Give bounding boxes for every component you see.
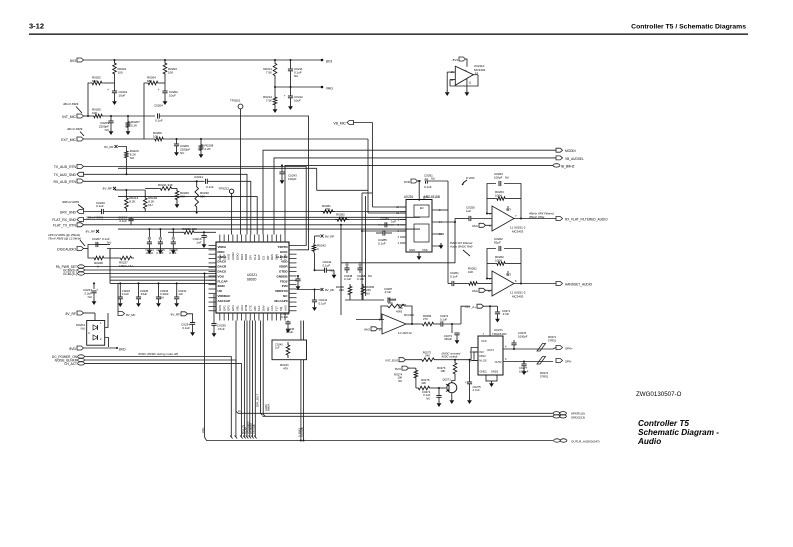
svg-text:NU: NU <box>368 274 372 278</box>
svg-text:GND1: GND1 <box>480 370 488 374</box>
svg-text:+: + <box>284 94 286 98</box>
svg-text:1uF: 1uF <box>391 220 396 224</box>
svg-text:+: + <box>158 88 160 92</box>
svg-text:MODIN: MODIN <box>565 149 576 153</box>
svg-text:8VDC muted): 8VDC muted) <box>442 355 458 359</box>
svg-text:0.1uF: 0.1uF <box>119 219 127 223</box>
svg-text:NU: NU <box>81 327 85 331</box>
svg-text:680: 680 <box>92 79 97 83</box>
svg-text:0.1uF: 0.1uF <box>281 315 288 319</box>
svg-text:VSS: VSS <box>422 248 428 252</box>
svg-text:8V_RF: 8V_RF <box>104 145 114 149</box>
svg-text:U0251: U0251 <box>404 195 414 199</box>
svg-text:8V_RF: 8V_RF <box>171 313 181 317</box>
svg-text:NU: NU <box>366 291 370 295</box>
svg-text:SPK+: SPK+ <box>565 347 573 351</box>
svg-text:57R01: 57R01 <box>548 338 557 342</box>
svg-text:8V3: 8V3 <box>506 208 511 212</box>
svg-text:BW0A: BW0A <box>267 403 271 411</box>
svg-text:6: 6 <box>489 212 491 216</box>
svg-text:GRD(S13): GRD(S13) <box>571 416 585 420</box>
svg-text:CLK16B: CLK16B <box>276 255 289 259</box>
svg-text:MC3403: MC3403 <box>512 294 524 298</box>
svg-text:C0284: C0284 <box>380 217 389 221</box>
svg-text:13: 13 <box>396 212 399 215</box>
svg-text:24K: 24K <box>339 288 344 292</box>
svg-text:1uF: 1uF <box>196 241 201 245</box>
svg-text:0.1uF: 0.1uF <box>378 242 386 246</box>
svg-text:8V_RF: 8V_RF <box>103 187 113 191</box>
svg-text:1uF: 1uF <box>178 292 183 296</box>
svg-text:2: 2 <box>398 230 400 233</box>
svg-text:0.1uF: 0.1uF <box>286 330 293 334</box>
svg-text:TX_AUD_SND: TX_AUD_SND <box>54 173 77 177</box>
svg-text:1: 1 <box>100 321 102 325</box>
svg-text:NU: NU <box>505 176 509 180</box>
svg-text:FLAT_RX_SND: FLAT_RX_SND <box>52 218 76 222</box>
svg-text:1000pF: 1000pF <box>518 334 528 338</box>
svg-text:46mV RMS: 46mV RMS <box>63 102 78 106</box>
svg-text:NINV: NINV <box>480 354 486 358</box>
svg-text:NU: NU <box>426 396 430 400</box>
svg-text:GND2: GND2 <box>491 370 499 374</box>
svg-text:0.1uF: 0.1uF <box>155 119 163 123</box>
svg-text:10K: 10K <box>440 369 445 373</box>
svg-text:10K: 10K <box>92 111 97 115</box>
svg-text:FLT_A+: FLT_A+ <box>465 305 476 309</box>
svg-text:12: 12 <box>396 206 399 209</box>
svg-text:ZWG0130507-O: ZWG0130507-O <box>636 391 682 398</box>
svg-text:2.2K: 2.2K <box>205 147 211 151</box>
svg-text:82pF: 82pF <box>494 241 501 245</box>
svg-text:MC3403: MC3403 <box>512 229 524 233</box>
svg-text:NU: NU <box>148 203 152 207</box>
svg-text:8V3: 8V3 <box>453 58 459 62</box>
svg-text:24K: 24K <box>425 354 430 358</box>
svg-text:VDD: VDD <box>281 260 288 264</box>
svg-text:SPK-: SPK- <box>565 360 572 364</box>
svg-text:100: 100 <box>118 71 123 75</box>
svg-text:Q0271: Q0271 <box>442 377 451 381</box>
svg-text:TX_AUD_RTN: TX_AUD_RTN <box>54 165 77 169</box>
svg-text:TDA1519C: TDA1519C <box>492 332 508 336</box>
svg-text:GTDD: GTDD <box>279 270 288 274</box>
svg-text:1MEG NU: 1MEG NU <box>119 264 133 268</box>
svg-text:INT_MIC: INT_MIC <box>62 115 76 119</box>
svg-text:8VDC (8VDC during mute off): 8VDC (8VDC during mute off) <box>138 352 178 356</box>
svg-text:36K: 36K <box>200 195 205 199</box>
svg-text:ASCCAP: ASCCAP <box>218 299 231 303</box>
svg-text:300mV RMS: 300mV RMS <box>62 200 79 204</box>
svg-text:C0221: C0221 <box>194 175 203 179</box>
svg-text:3VN: 3VN <box>282 284 288 288</box>
svg-text:680: 680 <box>147 79 152 83</box>
svg-text:VDDSYN: VDDSYN <box>275 289 288 293</box>
svg-text:0.1uF: 0.1uF <box>156 251 163 255</box>
svg-text:VOL: VOL <box>201 427 205 433</box>
svg-text:68020: 68020 <box>247 278 257 282</box>
svg-text:NU: NU <box>130 156 134 160</box>
svg-text:0.1uF: 0.1uF <box>169 251 176 255</box>
svg-text:EXT_MIC: EXT_MIC <box>61 138 76 142</box>
svg-text:NU: NU <box>294 74 298 78</box>
svg-text:VDDDAC: VDDDAC <box>218 294 232 298</box>
svg-text:C0204: C0204 <box>154 104 163 108</box>
svg-text:VAG: VAG <box>326 87 333 91</box>
svg-text:FLAT_TX_RTN: FLAT_TX_RTN <box>53 224 77 228</box>
svg-text:7.5K: 7.5K <box>266 99 272 103</box>
svg-text:DACU: DACU <box>218 260 227 264</box>
svg-text:HANDSET_AUDIO: HANDSET_AUDIO <box>565 283 593 287</box>
svg-text:5: 5 <box>398 224 400 227</box>
svg-text:14: 14 <box>439 221 442 224</box>
svg-text:FLCAP: FLCAP <box>218 279 228 283</box>
svg-text:INT_EXS: INT_EXS <box>385 359 398 363</box>
svg-text:CH_ACT: CH_ACT <box>64 362 77 366</box>
svg-text:8V_RF: 8V_RF <box>86 230 96 234</box>
svg-text:AUX: AUX <box>283 305 287 311</box>
svg-text:TXRTN: TXRTN <box>278 245 288 249</box>
svg-text:VAG: VAG <box>472 289 479 293</box>
svg-text:VDDA: VDDA <box>218 245 227 249</box>
svg-text:57R01: 57R01 <box>540 374 549 378</box>
svg-text:1uF: 1uF <box>466 209 471 213</box>
svg-text:11: 11 <box>238 409 241 413</box>
svg-text:VOX: VOX <box>218 274 224 278</box>
svg-text:40R3: 40R3 <box>396 310 403 314</box>
svg-text:OUT1: OUT1 <box>487 348 494 352</box>
svg-text:8.2K: 8.2K <box>129 200 135 204</box>
svg-text:Audio (8VDC Ref): Audio (8VDC Ref) <box>449 245 473 249</box>
svg-text:330pF: 330pF <box>444 337 452 341</box>
svg-text:34K: 34K <box>180 195 185 199</box>
svg-text:NU: NU <box>431 177 435 181</box>
svg-text:FD32: FD32 <box>280 279 288 283</box>
svg-text:7: 7 <box>515 214 517 218</box>
svg-text:0.1uF: 0.1uF <box>323 264 331 268</box>
svg-text:8V_RF: 8V_RF <box>126 313 136 317</box>
svg-text:4.7uF: 4.7uF <box>473 388 480 392</box>
svg-text:GNDA: GNDA <box>218 255 228 259</box>
svg-text:DISCAUDIO: DISCAUDIO <box>57 247 76 251</box>
svg-text:VCC: VCC <box>481 339 487 343</box>
svg-text:1: 1 <box>398 219 400 222</box>
svg-text:GND: GND <box>409 248 415 252</box>
svg-text:8VD: 8VD <box>404 180 411 184</box>
svg-text:8V3: 8V3 <box>506 273 511 277</box>
svg-text:MC3403: MC3403 <box>404 313 414 317</box>
svg-text:U0221: U0221 <box>247 273 257 277</box>
svg-text:3GIN: 3GIN <box>218 284 225 288</box>
svg-text:NU: NU <box>180 151 184 155</box>
svg-text:DACR: DACR <box>218 265 227 269</box>
svg-text:3: 3 <box>398 236 400 239</box>
svg-text:8VD: 8VD <box>119 347 126 351</box>
svg-text:8V3: 8V3 <box>326 60 332 64</box>
svg-text:RX_FLAT_FILTERED_AUDIO: RX_FLAT_FILTERED_AUDIO <box>565 218 608 222</box>
svg-text:11: 11 <box>469 81 472 85</box>
svg-text:VAG: VAG <box>472 224 479 228</box>
svg-text:10K: 10K <box>468 270 473 274</box>
svg-text:8V_RF: 8V_RF <box>325 235 335 239</box>
svg-text:8V3: 8V3 <box>70 59 76 63</box>
svg-text:INV: INV <box>480 350 485 354</box>
svg-text:TP0201: TP0201 <box>230 99 241 103</box>
svg-text:6: 6 <box>505 358 507 361</box>
svg-text:3: 3 <box>88 331 90 335</box>
svg-text:NC: NC <box>283 294 288 298</box>
svg-text:12: 12 <box>451 78 454 82</box>
svg-text:+: + <box>97 288 99 292</box>
svg-text:10K: 10K <box>388 301 393 305</box>
svg-text:8V_RF: 8V_RF <box>65 312 76 316</box>
svg-text:3-12: 3-12 <box>29 22 44 31</box>
svg-text:75mV RMS (@ 12.5kHz): 75mV RMS (@ 12.5kHz) <box>48 237 81 241</box>
svg-text:6 VDC: 6 VDC <box>466 176 476 180</box>
svg-text:0.1uF: 0.1uF <box>450 275 458 279</box>
svg-text:.47uF: .47uF <box>384 290 391 294</box>
svg-text:EN: EN <box>420 207 424 210</box>
svg-text:6: 6 <box>439 209 441 212</box>
svg-text:10: 10 <box>488 289 491 293</box>
svg-text:VAG: VAG <box>364 328 371 332</box>
svg-text:0.1uF: 0.1uF <box>96 204 104 208</box>
svg-text:100pF: 100pF <box>145 251 153 255</box>
svg-text:C0207: C0207 <box>92 237 101 241</box>
svg-text:4: 4 <box>398 242 400 245</box>
svg-text:CTCSIB: CTCSIB <box>300 427 304 437</box>
svg-text:NU: NU <box>398 379 402 383</box>
svg-text:8V_RF: 8V_RF <box>325 288 335 292</box>
svg-text:10K: 10K <box>421 381 426 385</box>
svg-text:10uF: 10uF <box>294 99 301 103</box>
svg-text:10uF: 10uF <box>169 94 176 98</box>
svg-text:2: 2 <box>100 337 102 341</box>
svg-text:GNDDB: GNDDB <box>277 274 289 278</box>
svg-text:.47uF: .47uF <box>217 327 225 331</box>
svg-text:OUTLR_AUDIO(S47): OUTLR_AUDIO(S47) <box>571 439 600 443</box>
svg-text:0.1uF: 0.1uF <box>319 301 327 305</box>
svg-text:DACG: DACG <box>218 270 227 274</box>
svg-text:UO: UO <box>218 289 223 293</box>
svg-text:0.1uF: 0.1uF <box>344 277 351 281</box>
svg-text:+: + <box>206 234 208 238</box>
svg-text:CTCSIB: CTCSIB <box>252 424 256 434</box>
svg-text:11 U0271d: 11 U0271d <box>398 331 412 335</box>
svg-text:100pF: 100pF <box>494 176 503 180</box>
svg-text:46mV RMS: 46mV RMS <box>67 127 82 131</box>
svg-text:1uF: 1uF <box>275 346 280 350</box>
svg-text:47K: 47K <box>283 367 288 371</box>
svg-text:7: 7 <box>483 332 485 336</box>
svg-text:URX_SND: URX_SND <box>60 210 77 214</box>
svg-text:8VO: 8VO <box>395 367 402 371</box>
svg-text:+: + <box>465 380 467 384</box>
svg-text:C0266: C0266 <box>360 293 361 294</box>
svg-text:0: 0 <box>317 247 319 251</box>
svg-text:IB_8MHZ: IB_8MHZ <box>561 164 575 168</box>
svg-text:0.1uF: 0.1uF <box>440 317 447 321</box>
svg-text:Audio: Audio <box>637 437 661 446</box>
svg-text:5: 5 <box>489 224 491 228</box>
svg-text:NU: NU <box>105 128 109 132</box>
svg-text:2.2K: 2.2K <box>131 124 137 128</box>
svg-text:VB_AUDSEL: VB_AUDSEL <box>565 157 584 161</box>
svg-text:DISC: DISC <box>218 250 226 254</box>
svg-text:Schematic Diagram -: Schematic Diagram - <box>638 428 719 437</box>
svg-text:RX_AUD_RTN: RX_AUD_RTN <box>53 180 76 184</box>
svg-text:Controller T5: Controller T5 <box>638 419 689 428</box>
svg-text:NU: NU <box>107 241 111 245</box>
svg-text:3FLCAP3: 3FLCAP3 <box>274 299 288 303</box>
svg-text:100pF: 100pF <box>288 177 297 181</box>
svg-text:GCIO: GCIO <box>280 250 288 254</box>
svg-text:8: 8 <box>515 279 517 283</box>
svg-text:.47uF: .47uF <box>502 312 509 316</box>
svg-text:45kHz VFlat: 45kHz VFlat <box>529 215 544 219</box>
svg-text:0.1uF: 0.1uF <box>357 277 364 281</box>
svg-text:7.5K: 7.5K <box>266 71 272 75</box>
svg-text:10uF: 10uF <box>119 94 126 98</box>
svg-text:0.1uF: 0.1uF <box>182 326 190 330</box>
svg-text:0.1uF: 0.1uF <box>206 185 214 189</box>
svg-text:VDDR: VDDR <box>279 265 288 269</box>
svg-text:Controller T5 / Schematic Diag: Controller T5 / Schematic Diagrams <box>631 24 746 31</box>
svg-text:0.1uF: 0.1uF <box>122 292 129 296</box>
svg-text:270: 270 <box>423 317 428 321</box>
svg-text:100: 100 <box>168 71 173 75</box>
svg-text:GPI_OUT: GPI_OUT <box>255 394 259 407</box>
svg-text:GCB1(S-): GCB1(S-) <box>63 272 77 276</box>
svg-text:NU: NU <box>88 295 92 299</box>
svg-text:4: 4 <box>505 346 507 349</box>
svg-text:9: 9 <box>489 277 491 281</box>
svg-text:10: 10 <box>439 233 442 236</box>
svg-text:.33uF: .33uF <box>140 292 147 296</box>
svg-text:M_SS: M_SS <box>480 359 487 363</box>
svg-text:0.1uF: 0.1uF <box>424 185 432 189</box>
svg-text:+: + <box>107 88 109 92</box>
svg-text:VB_MIC: VB_MIC <box>333 122 346 126</box>
svg-text:8VD: 8VD <box>69 347 76 351</box>
svg-text:OUT2: OUT2 <box>495 360 502 364</box>
svg-text:TP0222: TP0222 <box>218 187 229 191</box>
